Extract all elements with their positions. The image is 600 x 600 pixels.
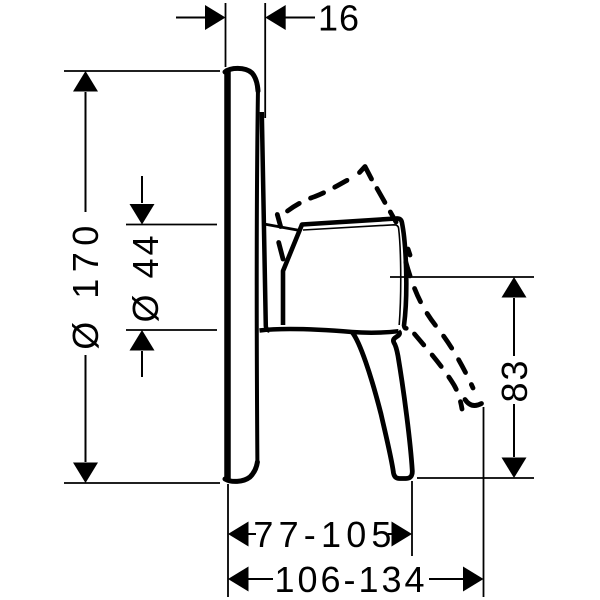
sleeve collar side line [262, 112, 270, 331]
handle inner line [303, 225, 401, 325]
sleeve top line [264, 224, 300, 231]
wall plate top curve [225, 68, 258, 91]
dim 83: bottom extension line [417, 477, 534, 479]
dim 44: bottom extension line [126, 329, 217, 331]
dim 83: top extension line [390, 276, 534, 278]
dim 44: top extension line [126, 224, 217, 226]
svg-text:83: 83 [494, 358, 535, 402]
handle bottom edge / sleeve bottom [260, 329, 399, 333]
dim 44: dimension line with arrows [130, 176, 155, 377]
dim 16: left extension line [225, 3, 227, 67]
handle body outline [283, 218, 406, 328]
dim 16: right arrow and tail [265, 5, 315, 30]
wall plate back edge [224, 70, 231, 480]
wall plate bottom curve [225, 462, 257, 481]
svg-text:77-105: 77-105 [253, 514, 396, 555]
dim 16: left arrow and tail [176, 5, 226, 30]
dim 170: dimension line with arrows [73, 71, 98, 483]
dim 170: bottom extension line [64, 482, 220, 484]
svg-text:Ø 44: Ø 44 [125, 232, 166, 322]
svg-text:Ø 170: Ø 170 [65, 219, 106, 350]
dim 106-134: right extension line [483, 407, 485, 597]
dashed handle rotated: peak corner [360, 167, 372, 180]
dashed handle rotated: lower-left to peak line [288, 177, 354, 211]
lever [352, 331, 412, 478]
dim 83: label [494, 358, 535, 402]
dim 77-105: dimension line with arrows [228, 522, 412, 547]
dim 16: label [318, 0, 360, 39]
dim 77-105: label [253, 514, 396, 555]
svg-text:106-134: 106-134 [274, 559, 427, 600]
dim 44: label [125, 232, 166, 322]
dashed lever lower edge [415, 334, 463, 409]
dim 77-105: right extension line [411, 481, 413, 556]
dim 77-105: left extension line [227, 484, 229, 597]
dashed lever tip arc [465, 400, 482, 406]
dashed lever upper edge [405, 249, 473, 388]
dim 170: top extension line [64, 70, 220, 72]
dim 106-134: dimension line with arrows [228, 567, 484, 592]
dim 16: right extension line [264, 3, 266, 118]
svg-text:16: 16 [318, 0, 360, 39]
wall plate front face [257, 88, 258, 464]
dim 83: dimension line with arrows [502, 277, 527, 478]
dashed handle rotated: left edge dashes near plate [277, 215, 283, 260]
dim 106-134: label [274, 559, 427, 600]
dashed handle rotated: peak to body line [377, 189, 396, 223]
dim 170: label [65, 219, 106, 350]
